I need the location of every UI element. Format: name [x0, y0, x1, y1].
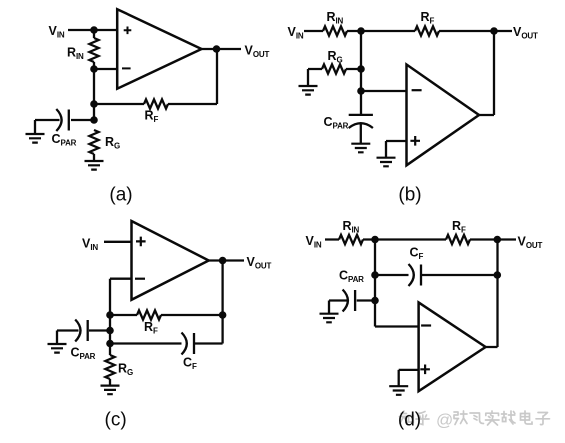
svg-text:(b): (b) [398, 185, 421, 206]
svg-text:(a): (a) [109, 185, 132, 206]
svg-text:(c): (c) [105, 410, 127, 431]
svg-text:@: @ [436, 411, 453, 430]
svg-text:(d): (d) [398, 410, 421, 431]
